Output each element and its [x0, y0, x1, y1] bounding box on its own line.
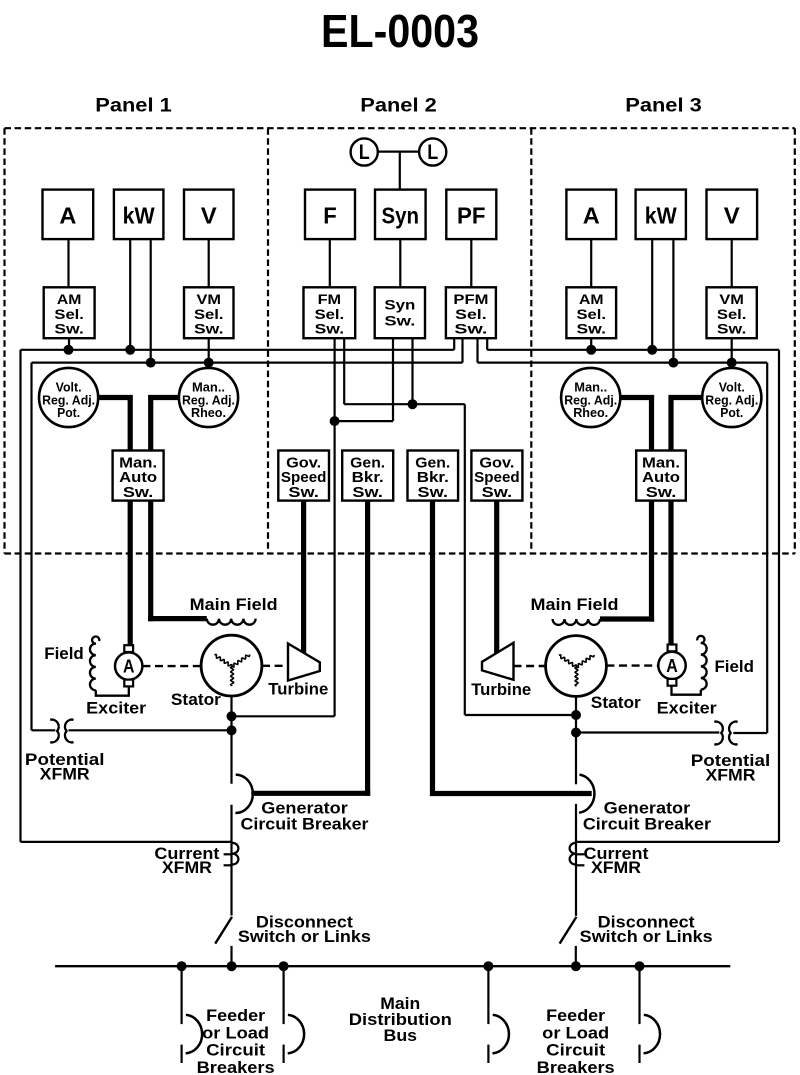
svg-text:Bkr.: Bkr. — [352, 470, 384, 486]
svg-text:or Load: or Load — [542, 1023, 609, 1042]
svg-text:F: F — [323, 203, 337, 229]
wire Rheo to Man Auto Sw panel1 — [148, 395, 179, 400]
wire Gen Bkr Sw to breaker gen1 — [365, 501, 370, 796]
svg-text:Pot.: Pot. — [57, 405, 80, 420]
feeder breaker 3 — [487, 966, 489, 1024]
potentiometer Volt Reg Adj Pot panel1 — [39, 368, 98, 427]
exciter brush top gen1 — [124, 645, 133, 652]
svg-text:Sw.: Sw. — [194, 321, 224, 337]
svg-text:Stator: Stator — [171, 690, 221, 709]
bus line1 right section — [487, 349, 779, 351]
wire A to AM Sel Sw panel3 — [590, 239, 592, 287]
panel border bottom — [5, 552, 795, 554]
svg-text:Exciter: Exciter — [86, 698, 146, 717]
svg-text:Pot.: Pot. — [720, 405, 743, 420]
wire V to VM Sel Sw panel1 — [208, 239, 210, 287]
junction stator pt gen2 — [571, 728, 581, 738]
wire field coil to brush gen1 — [96, 686, 129, 695]
svg-text:Gov.: Gov. — [479, 455, 514, 471]
meter V panel1 — [184, 190, 234, 240]
bus line2 left section — [32, 362, 463, 364]
junction feeder2 on bus — [279, 961, 289, 971]
svg-text:PFM: PFM — [453, 291, 488, 307]
wire kW panel3 left to bus line1 — [651, 239, 653, 350]
svg-text:Panel 3: Panel 3 — [625, 95, 702, 117]
svg-text:Field: Field — [44, 644, 84, 663]
junction kW panel3 on line1 — [647, 345, 657, 355]
selector Syn Sw panel2 — [375, 287, 425, 338]
svg-text:AM: AM — [57, 291, 82, 307]
svg-text:Breakers: Breakers — [197, 1058, 275, 1075]
svg-text:kW: kW — [123, 203, 156, 229]
exciter armature A gen2 — [658, 652, 685, 679]
wire ct metering line gen2 — [576, 841, 779, 843]
svg-text:Sel.: Sel. — [577, 306, 607, 322]
wire breaker to disconnect gen1 — [230, 805, 232, 916]
svg-text:Auto: Auto — [119, 470, 157, 486]
junction kW panel1 on line1 — [125, 345, 135, 355]
svg-text:L: L — [427, 141, 438, 164]
inductor exciter field coil gen1 — [92, 637, 99, 644]
circuit breaker gen2 arc — [579, 775, 594, 813]
wire Pot to Man Auto Sw panel3 — [669, 395, 703, 400]
wire Gov Speed Sw to turbine gen2 — [494, 501, 499, 656]
svg-text:Feeder: Feeder — [546, 1006, 605, 1025]
wire node gen2 sense horizontal — [344, 403, 465, 405]
wire gen2 sense vertical — [464, 404, 466, 715]
wire pt line gen1 left — [32, 729, 56, 731]
panel border right — [794, 128, 796, 553]
wire Gen Bkr Sw to breaker gen2 — [430, 501, 435, 796]
svg-text:Field: Field — [714, 657, 754, 676]
shaft exciter-stator gen1 — [142, 665, 201, 667]
inductor main field winding gen2 — [553, 619, 600, 625]
wire PFM tap1 to bus line1 left — [453, 338, 455, 350]
svg-text:XFMR: XFMR — [162, 858, 212, 877]
wire A to AM Sel Sw panel1 — [67, 239, 69, 287]
selector PFM Sel Sw panel2 — [446, 287, 496, 338]
circuit breaker gen1 arc — [235, 775, 252, 813]
svg-text:XFMR: XFMR — [706, 766, 756, 785]
meter V panel3 — [707, 190, 758, 240]
svg-text:Sw.: Sw. — [123, 485, 154, 501]
wire disconnect to bus gen1 — [230, 946, 232, 966]
junction AM panel3 on line1 — [586, 345, 596, 355]
inductor exciter field coil gen2 — [697, 636, 704, 643]
svg-text:Circuit Breaker: Circuit Breaker — [241, 814, 369, 833]
wire stator output gen2 — [575, 696, 577, 784]
svg-text:L: L — [359, 141, 370, 164]
svg-text:Breakers: Breakers — [537, 1058, 615, 1075]
wire PFM tap4 to bus line1 right — [486, 338, 488, 350]
svg-text:Rheo.: Rheo. — [573, 405, 608, 420]
wire Man Auto Sw to main field gen2 — [649, 501, 654, 622]
svg-text:VM: VM — [719, 291, 744, 307]
exciter armature A gen1 — [115, 652, 142, 679]
svg-text:Circuit: Circuit — [206, 1041, 265, 1060]
disconnect switch blade gen2 — [560, 917, 577, 944]
svg-text:Sw.: Sw. — [384, 312, 415, 328]
junction kW panel3 on line2 — [668, 358, 678, 368]
svg-text:V: V — [201, 203, 217, 229]
svg-text:or Load: or Load — [202, 1023, 269, 1042]
junction stator sense gen2 — [571, 710, 581, 720]
svg-text:Sel.: Sel. — [315, 306, 345, 322]
wire Man Auto Sw to exciter gen2 — [668, 501, 673, 648]
stator G1 — [201, 635, 262, 696]
wire lamps to Syn meter — [399, 152, 401, 190]
svg-text:Gov.: Gov. — [286, 455, 321, 471]
junction FM-Syn gen1 sense — [330, 416, 340, 426]
synch lamp L1 — [351, 138, 378, 165]
selector AM Sel Sw panel3 — [566, 287, 616, 338]
svg-text:Sw.: Sw. — [418, 485, 449, 501]
svg-text:Sel.: Sel. — [455, 306, 487, 322]
svg-text:Circuit: Circuit — [546, 1041, 605, 1060]
selector FM Sel Sw panel2 — [304, 287, 356, 338]
ct transformer gen1 — [232, 843, 238, 865]
panel border top — [5, 127, 795, 129]
svg-text:Sw.: Sw. — [352, 485, 383, 501]
svg-text:Sw.: Sw. — [482, 485, 513, 501]
svg-text:FM: FM — [318, 291, 342, 307]
svg-text:Speed: Speed — [281, 470, 327, 486]
feeder breaker 1 — [181, 966, 183, 1024]
svg-text:Gen.: Gen. — [415, 455, 450, 471]
feeder breaker 4 — [638, 966, 640, 1024]
junction feeder1 on bus — [177, 961, 187, 971]
rail right outer from bus line1 — [778, 350, 780, 842]
junction feeder4 on bus — [635, 961, 645, 971]
wire Syn to Syn Sw — [399, 239, 401, 287]
meter A panel3 — [566, 190, 616, 240]
svg-text:Man.: Man. — [642, 455, 680, 471]
rail left inner from bus line2 — [30, 363, 32, 731]
svg-text:Turbine: Turbine — [471, 680, 531, 699]
wire AM Sel Sw to bus line1 panel1 — [68, 338, 70, 350]
wire FM Sel Sw right to node — [343, 338, 345, 404]
svg-text:Sel.: Sel. — [717, 306, 747, 322]
junction feeder3 on bus — [483, 961, 493, 971]
meter kW panel1 — [114, 190, 163, 240]
meter kW panel3 — [636, 190, 686, 240]
svg-text:Sw.: Sw. — [454, 321, 487, 337]
rheostat Man Reg Adj Rheo panel1 — [179, 368, 238, 427]
wire field coil to brush gen2 — [672, 686, 701, 695]
meter Syn panel2 — [375, 190, 426, 240]
rheostat Man Reg Adj Rheo panel3 — [561, 368, 620, 427]
rail right inner from bus line2 — [766, 363, 768, 733]
stator winding wye G1 — [215, 655, 233, 667]
svg-text:V: V — [724, 203, 740, 229]
svg-text:EL-0003: EL-0003 — [321, 5, 479, 57]
wire pt line gen2 left — [576, 731, 719, 733]
pt transformer gen1 — [50, 720, 59, 743]
svg-text:Syn: Syn — [384, 297, 415, 313]
wire PFM tap3 to bus line2 right — [476, 338, 478, 362]
junction gen1 on bus — [227, 961, 237, 971]
selector VM Sel Sw panel1 — [184, 287, 234, 338]
svg-text:Sw.: Sw. — [288, 485, 319, 501]
svg-text:Sel.: Sel. — [194, 306, 224, 322]
turbine gen1 — [288, 644, 320, 681]
wire Man Auto Sw to exciter gen1 — [128, 501, 133, 648]
svg-text:Sw.: Sw. — [577, 321, 607, 337]
shaft stator-turbine gen1 — [262, 665, 288, 667]
svg-text:Main Field: Main Field — [531, 595, 619, 614]
svg-text:Switch or Links: Switch or Links — [580, 927, 713, 946]
wire breaker to disconnect gen2 — [575, 804, 577, 916]
svg-text:Panel 1: Panel 1 — [95, 95, 172, 117]
svg-text:Turbine: Turbine — [268, 680, 328, 699]
svg-text:Sw.: Sw. — [315, 321, 345, 337]
wire VM Sel Sw to bus line2 panel1 — [208, 338, 210, 362]
junction Syn gen2 sense — [408, 399, 418, 409]
svg-text:A: A — [123, 656, 135, 677]
svg-text:Sw.: Sw. — [717, 321, 747, 337]
shaft stator-exciter gen2 — [606, 664, 658, 666]
svg-text:Syn: Syn — [382, 203, 420, 229]
feeder breaker 2 — [283, 966, 285, 1024]
pt transformer gen2 — [714, 722, 723, 745]
wire Pot to Man Auto Sw panel1 — [98, 395, 132, 400]
junction AM panel1 on line1 — [64, 345, 74, 355]
svg-text:Sel.: Sel. — [54, 306, 84, 322]
svg-text:Gen.: Gen. — [350, 455, 385, 471]
svg-text:Sw.: Sw. — [54, 321, 84, 337]
wire stator output gen1 — [230, 696, 232, 784]
wire Rheo to Man Auto Sw panel3 — [620, 395, 654, 400]
svg-text:Bus: Bus — [384, 1026, 418, 1045]
rail left outer from bus line1 — [19, 350, 21, 842]
svg-text:PF: PF — [457, 203, 486, 229]
svg-text:Sw.: Sw. — [646, 485, 677, 501]
switch Gen Bkr Sw gen2 — [408, 451, 459, 501]
switch Man Auto Sw panel3 — [636, 451, 686, 501]
exciter brush top gen2 — [668, 645, 677, 652]
potentiometer Volt Reg Adj Pot panel3 — [702, 368, 761, 427]
wire node gen1 sense horizontal — [335, 420, 393, 422]
disconnect switch blade gen1 — [215, 917, 232, 944]
junction gen2 on bus — [571, 961, 581, 971]
svg-text:XFMR: XFMR — [591, 858, 641, 877]
svg-text:VM: VM — [197, 291, 222, 307]
svg-text:Stator: Stator — [591, 693, 641, 712]
svg-text:AM: AM — [579, 291, 604, 307]
wire pt line gen1 right — [69, 729, 232, 731]
wire kW panel1 right to bus line2 — [150, 239, 152, 363]
junction kW panel1 on line2 — [146, 358, 156, 368]
meter F panel2 — [305, 190, 355, 240]
svg-text:Exciter: Exciter — [657, 699, 717, 718]
wire PFM tap2 to bus line2 left — [461, 338, 463, 362]
wire FM Sel Sw left to gen1 sense — [334, 338, 336, 716]
wire sense tap gen1 — [232, 715, 335, 717]
svg-text:kW: kW — [645, 203, 678, 229]
svg-text:Auto: Auto — [642, 470, 680, 486]
panel border divider 2-3 — [530, 128, 532, 553]
inductor main field winding gen1 — [207, 619, 256, 625]
wire Man Auto Sw to main field gen1 — [148, 501, 153, 622]
wire AM Sel Sw to bus line1 panel3 — [590, 338, 592, 350]
wire ct metering line gen1 — [21, 841, 232, 843]
svg-text:A: A — [666, 655, 678, 676]
junction stator pt gen1 — [227, 725, 237, 735]
stator winding wye G2 — [559, 655, 577, 667]
meter A panel1 — [43, 190, 94, 240]
exciter brush bottom gen2 — [668, 679, 677, 686]
wire F to FM Sel Sw — [329, 239, 331, 287]
switch Gov Speed Sw gen2 — [471, 451, 522, 501]
wire Syn Sw right to node — [411, 338, 413, 404]
exciter brush bottom gen1 — [124, 680, 133, 687]
switch Gov Speed Sw gen1 — [278, 451, 329, 501]
svg-text:A: A — [583, 203, 600, 229]
stator G2 — [546, 636, 607, 697]
junction VM panel1 on line2 — [204, 358, 214, 368]
bus line2 right section — [478, 362, 768, 364]
svg-text:Feeder: Feeder — [206, 1006, 265, 1025]
synch lamp L2 — [419, 138, 446, 165]
svg-text:Circuit Breaker: Circuit Breaker — [583, 814, 711, 833]
selector VM Sel Sw panel3 — [707, 287, 757, 338]
wire V to VM Sel Sw panel3 — [731, 239, 733, 287]
wire VM Sel Sw to bus line2 panel3 — [731, 338, 733, 362]
turbine gen2 — [482, 643, 514, 680]
panel border divider 1-2 — [267, 128, 269, 553]
svg-text:Panel 2: Panel 2 — [360, 95, 437, 117]
wire PF to PFM Sel Sw — [470, 239, 472, 287]
svg-text:Main Field: Main Field — [190, 595, 278, 614]
svg-text:Switch or Links: Switch or Links — [238, 927, 371, 946]
main distribution bus — [55, 965, 730, 967]
meter PF panel2 — [446, 190, 496, 240]
selector AM Sel Sw panel1 — [44, 287, 95, 338]
svg-text:A: A — [59, 203, 76, 229]
switch Gen Bkr Sw gen1 — [342, 451, 393, 501]
wire disconnect to bus gen2 — [575, 946, 577, 966]
svg-text:XFMR: XFMR — [40, 765, 90, 784]
switch Man Auto Sw panel1 — [113, 451, 164, 501]
wire lamp L1 to L2 — [378, 151, 419, 153]
svg-text:Rheo.: Rheo. — [191, 405, 226, 420]
junction stator sense gen1 — [227, 711, 237, 721]
shaft turbine-stator gen2 — [514, 665, 546, 667]
wire sense tap gen2 — [465, 714, 576, 716]
bus line1 left section — [21, 349, 455, 351]
svg-text:Man.: Man. — [119, 455, 157, 471]
svg-text:Bkr.: Bkr. — [417, 470, 449, 486]
svg-text:Speed: Speed — [474, 470, 520, 486]
junction VM panel3 on line2 — [727, 358, 737, 368]
panel border left — [3, 128, 5, 553]
ct transformer gen2 — [570, 843, 576, 865]
wire Syn Sw left to node — [392, 338, 394, 421]
wire pt line gen2 right — [733, 732, 767, 734]
wire kW panel3 right to bus line2 — [672, 239, 674, 363]
wire kW panel1 left to bus line1 — [129, 239, 131, 350]
wire Gov Speed Sw to turbine gen1 — [301, 501, 306, 655]
